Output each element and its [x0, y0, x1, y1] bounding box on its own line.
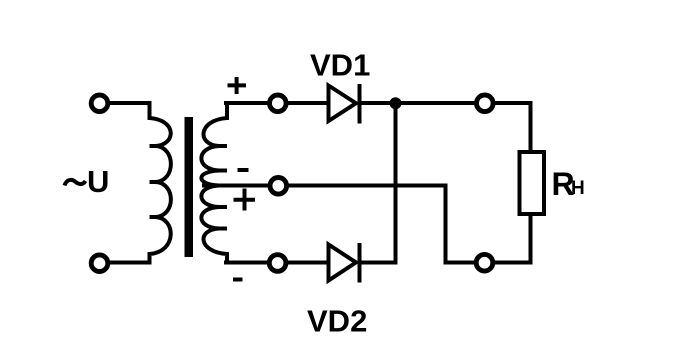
secondary top terminal circle [270, 95, 287, 112]
svg-text:VD2: VD2 [307, 304, 367, 339]
transformer primary winding L1 [150, 101, 171, 265]
wire elbow up to center tap rail [444, 184, 448, 265]
wire VD2 cathode to corner [362, 261, 398, 265]
minus sign (above center tap) [238, 168, 249, 172]
diode VD2 [329, 243, 360, 283]
transformer secondary winding L2 [201, 101, 227, 265]
wire primary top [108, 101, 151, 105]
wire center tap rail right of terminal [287, 184, 448, 188]
transformer core bar [185, 117, 194, 257]
label RH [552, 166, 585, 202]
primary bottom terminal circle [91, 255, 108, 272]
junction node A [390, 97, 402, 109]
svg-text:VD1: VD1 [310, 48, 370, 83]
output bottom terminal circle [476, 254, 493, 271]
resistor RH [520, 152, 545, 214]
wire VD1 cathode to node A [362, 101, 477, 105]
wire output bottom terminal to elbow [444, 261, 477, 265]
wire right rail lower [529, 214, 533, 265]
output top terminal circle [477, 95, 494, 112]
wire node A down to VD2 cathode corner [394, 103, 398, 265]
secondary bottom terminal circle [269, 255, 286, 272]
diode VD1 [329, 84, 360, 124]
wire bottom right to output bottom terminal [493, 261, 532, 265]
wire terminal to VD1 anode [286, 101, 330, 105]
label ~U (source voltage) [65, 164, 110, 199]
wire primary bottom [108, 261, 149, 265]
plus sign (top secondary polarity) [228, 77, 247, 94]
wire center tap from winding to terminal [202, 184, 270, 188]
primary top terminal circle [91, 95, 108, 112]
wire secondary top to terminal [224, 101, 269, 105]
wire secondary bottom to terminal [224, 261, 269, 265]
svg-text:U: U [87, 164, 109, 199]
wire right rail upper [529, 101, 533, 154]
wire output top terminal to right rail [493, 101, 532, 105]
svg-text:H: H [571, 178, 585, 199]
center tap terminal circle [270, 178, 287, 195]
minus sign (bottom secondary polarity) [233, 278, 243, 282]
plus sign (below center tap) [234, 189, 256, 211]
wire terminal to VD2 anode [286, 261, 330, 265]
